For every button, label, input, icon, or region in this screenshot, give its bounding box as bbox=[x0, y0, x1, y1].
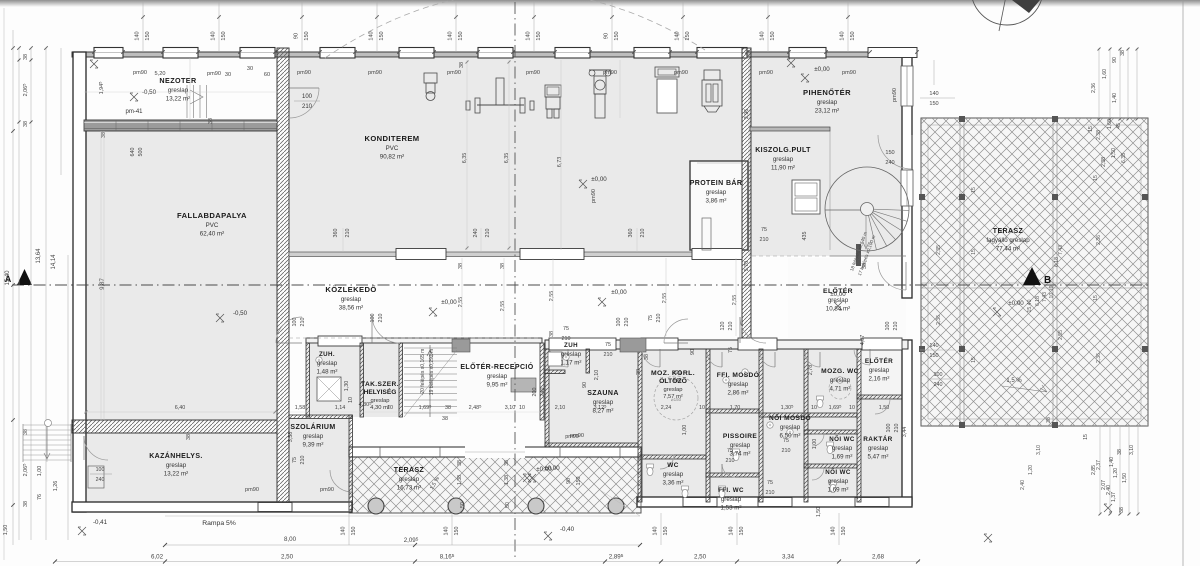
svg-text:140: 140 bbox=[760, 31, 766, 40]
svg-text:NŐI WC: NŐI WC bbox=[825, 469, 851, 476]
svg-text:greslap: greslap bbox=[399, 476, 420, 483]
svg-text:B: B bbox=[1044, 275, 1051, 286]
svg-text:38: 38 bbox=[636, 369, 642, 375]
svg-text:38: 38 bbox=[459, 62, 465, 68]
svg-text:140: 140 bbox=[929, 343, 938, 349]
svg-text:1,50: 1,50 bbox=[879, 405, 890, 411]
svg-text:2,78: 2,78 bbox=[808, 365, 814, 376]
svg-text:30: 30 bbox=[225, 72, 231, 78]
svg-text:2,24: 2,24 bbox=[661, 405, 672, 411]
svg-text:pm90: pm90 bbox=[565, 434, 579, 440]
svg-text:greslap: greslap bbox=[663, 387, 682, 393]
svg-text:7,57 m²: 7,57 m² bbox=[663, 394, 683, 400]
svg-text:140: 140 bbox=[840, 31, 846, 40]
svg-text:pm90: pm90 bbox=[245, 487, 259, 493]
svg-text:pm90: pm90 bbox=[207, 71, 221, 77]
svg-text:1,20: 1,20 bbox=[1028, 465, 1034, 475]
svg-text:greslap: greslap bbox=[828, 297, 849, 304]
svg-text:150: 150 bbox=[351, 527, 357, 536]
svg-text:2,16 m²: 2,16 m² bbox=[869, 376, 890, 383]
svg-text:13,22 m²: 13,22 m² bbox=[164, 471, 188, 478]
svg-text:Rampa 5%: Rampa 5% bbox=[202, 520, 236, 527]
svg-text:1,53 m²: 1,53 m² bbox=[721, 505, 742, 512]
svg-text:pm90: pm90 bbox=[842, 70, 856, 76]
svg-text:100: 100 bbox=[673, 370, 682, 376]
svg-text:100: 100 bbox=[302, 94, 313, 100]
svg-text:greslap: greslap bbox=[828, 478, 849, 485]
svg-text:HELYISÉG: HELYISÉG bbox=[364, 387, 397, 396]
svg-text:2,38: 2,38 bbox=[1096, 130, 1102, 140]
svg-text:45: 45 bbox=[1116, 123, 1122, 129]
svg-text:-0,41: -0,41 bbox=[93, 519, 108, 526]
svg-text:90,82 m²: 90,82 m² bbox=[380, 154, 404, 161]
svg-text:75: 75 bbox=[761, 227, 767, 233]
svg-text:WC: WC bbox=[667, 462, 678, 469]
svg-text:150: 150 bbox=[663, 527, 669, 536]
svg-text:1,50: 1,50 bbox=[3, 525, 9, 536]
svg-text:±0,00: ±0,00 bbox=[1008, 300, 1024, 307]
svg-text:ELŐTÉR: ELŐTÉR bbox=[865, 356, 893, 365]
svg-text:90: 90 bbox=[294, 33, 300, 39]
svg-text:16,73 m²: 16,73 m² bbox=[397, 485, 421, 492]
svg-text:90: 90 bbox=[604, 33, 610, 39]
svg-text:150: 150 bbox=[929, 101, 938, 107]
svg-text:3,36 m²: 3,36 m² bbox=[663, 480, 684, 487]
svg-text:38: 38 bbox=[457, 460, 463, 466]
svg-text:greslap: greslap bbox=[832, 445, 853, 452]
svg-text:3,10: 3,10 bbox=[505, 405, 516, 411]
svg-text:greslap: greslap bbox=[317, 360, 338, 367]
svg-text:8,00: 8,00 bbox=[284, 536, 297, 543]
svg-text:pm90: pm90 bbox=[526, 70, 540, 76]
svg-text:140: 140 bbox=[831, 527, 837, 536]
svg-text:fagyálló greslap: fagyálló greslap bbox=[986, 237, 1030, 244]
svg-text:greslap: greslap bbox=[780, 424, 801, 431]
svg-text:1,60: 1,60 bbox=[1102, 69, 1108, 79]
svg-text:150: 150 bbox=[685, 31, 691, 40]
svg-text:150: 150 bbox=[454, 527, 460, 536]
svg-text:3,96: 3,96 bbox=[744, 109, 750, 120]
svg-text:NEZOTER: NEZOTER bbox=[159, 76, 197, 85]
svg-text:6,18: 6,18 bbox=[1054, 257, 1060, 267]
svg-text:2,55: 2,55 bbox=[549, 291, 555, 302]
svg-text:15: 15 bbox=[1083, 434, 1089, 440]
svg-text:38: 38 bbox=[23, 501, 29, 507]
svg-text:150: 150 bbox=[145, 31, 151, 40]
svg-text:1,70: 1,70 bbox=[730, 405, 741, 411]
svg-text:38: 38 bbox=[23, 121, 29, 127]
svg-text:10,19: 10,19 bbox=[1049, 285, 1055, 298]
svg-text:38: 38 bbox=[504, 460, 510, 466]
svg-text:210: 210 bbox=[728, 322, 734, 331]
svg-text:greslap: greslap bbox=[168, 87, 189, 94]
svg-text:pm90: pm90 bbox=[591, 189, 597, 203]
svg-text:640: 640 bbox=[130, 148, 136, 157]
svg-text:150: 150 bbox=[841, 527, 847, 536]
svg-text:9,95 m²: 9,95 m² bbox=[487, 382, 508, 389]
svg-text:62,40 m²: 62,40 m² bbox=[200, 231, 224, 238]
svg-text:140: 140 bbox=[448, 31, 454, 40]
svg-text:1,38: 1,38 bbox=[457, 475, 463, 485]
svg-text:140: 140 bbox=[929, 91, 938, 97]
svg-text:38: 38 bbox=[862, 263, 868, 269]
svg-text:5,70: 5,70 bbox=[744, 261, 750, 272]
svg-text:140: 140 bbox=[444, 527, 450, 536]
svg-text:75: 75 bbox=[648, 315, 654, 321]
svg-text:150: 150 bbox=[850, 31, 856, 40]
svg-text:100: 100 bbox=[292, 318, 298, 327]
svg-text:3,10: 3,10 bbox=[1036, 445, 1042, 455]
svg-text:-0,50: -0,50 bbox=[233, 310, 248, 317]
svg-text:15: 15 bbox=[1088, 126, 1094, 132]
svg-text:1,50: 1,50 bbox=[1111, 148, 1117, 158]
svg-text:3,44: 3,44 bbox=[902, 427, 908, 438]
svg-text:2,35: 2,35 bbox=[936, 245, 942, 255]
svg-text:10,84 m²: 10,84 m² bbox=[826, 306, 850, 313]
svg-text:6,73: 6,73 bbox=[557, 157, 563, 168]
svg-text:210: 210 bbox=[562, 336, 571, 342]
svg-text:greslap: greslap bbox=[487, 373, 508, 380]
svg-text:75: 75 bbox=[605, 342, 611, 348]
svg-text:38: 38 bbox=[208, 118, 214, 124]
svg-text:pm90: pm90 bbox=[368, 70, 382, 76]
svg-text:RAKTÁR: RAKTÁR bbox=[863, 434, 892, 443]
svg-text:pm90: pm90 bbox=[759, 70, 773, 76]
svg-text:150: 150 bbox=[536, 31, 542, 40]
svg-text:23,12 m²: 23,12 m² bbox=[815, 108, 839, 115]
svg-text:4,37: 4,37 bbox=[860, 335, 866, 346]
svg-text:2,68: 2,68 bbox=[872, 554, 885, 561]
svg-text:7,43: 7,43 bbox=[1058, 245, 1064, 255]
svg-text:SZAUNA: SZAUNA bbox=[587, 390, 619, 397]
svg-text:greslap: greslap bbox=[817, 99, 838, 106]
svg-text:1,00: 1,00 bbox=[682, 425, 688, 436]
svg-text:pm90: pm90 bbox=[447, 70, 461, 76]
svg-text:PVC: PVC bbox=[386, 145, 399, 152]
svg-text:±0,00: ±0,00 bbox=[830, 291, 846, 298]
svg-text:1,50: 1,50 bbox=[816, 507, 822, 517]
svg-text:2,55: 2,55 bbox=[500, 301, 506, 312]
svg-text:200: 200 bbox=[532, 388, 538, 397]
svg-text:FALLABDAPALYA: FALLABDAPALYA bbox=[177, 211, 247, 220]
svg-text:2,50: 2,50 bbox=[281, 554, 294, 561]
svg-text:±0,00: ±0,00 bbox=[591, 176, 607, 183]
svg-text:1,5 %: 1,5 % bbox=[1006, 378, 1022, 384]
svg-text:100: 100 bbox=[370, 314, 376, 323]
svg-text:pm-41: pm-41 bbox=[125, 109, 143, 115]
svg-text:15,40: 15,40 bbox=[5, 270, 11, 286]
svg-text:NŐI MOSDÓ: NŐI MOSDÓ bbox=[769, 413, 811, 422]
svg-text:140: 140 bbox=[135, 31, 141, 40]
svg-text:360: 360 bbox=[628, 229, 634, 238]
svg-text:30: 30 bbox=[247, 66, 253, 72]
svg-text:210: 210 bbox=[300, 318, 306, 327]
svg-text:KISZOLG.PULT: KISZOLG.PULT bbox=[755, 147, 811, 154]
svg-text:38: 38 bbox=[442, 416, 448, 422]
svg-text:MOZG. WC: MOZG. WC bbox=[821, 368, 859, 375]
svg-text:TERASZ: TERASZ bbox=[993, 228, 1024, 235]
svg-text:210: 210 bbox=[782, 448, 791, 454]
svg-text:1,69 m²: 1,69 m² bbox=[832, 454, 853, 461]
svg-text:210: 210 bbox=[656, 314, 662, 323]
svg-text:ZUH: ZUH bbox=[564, 342, 578, 349]
svg-text:210: 210 bbox=[726, 458, 735, 464]
svg-text:1,48 m²: 1,48 m² bbox=[317, 369, 338, 376]
svg-text:240: 240 bbox=[540, 388, 546, 397]
svg-text:140: 140 bbox=[211, 31, 217, 40]
svg-text:10: 10 bbox=[387, 405, 393, 411]
svg-text:100: 100 bbox=[886, 424, 892, 433]
svg-text:KONDITEREM: KONDITEREM bbox=[364, 134, 419, 143]
svg-text:3,86 m²: 3,86 m² bbox=[706, 198, 727, 205]
svg-text:TAK.SZER.: TAK.SZER. bbox=[361, 381, 399, 388]
svg-text:150: 150 bbox=[576, 477, 582, 486]
svg-text:-20 felépés x0,165 m: -20 felépés x0,165 m bbox=[420, 349, 426, 396]
svg-text:435: 435 bbox=[802, 232, 808, 241]
svg-text:greslap: greslap bbox=[830, 377, 851, 384]
svg-text:150: 150 bbox=[614, 31, 620, 40]
svg-text:3,58: 3,58 bbox=[288, 432, 294, 443]
svg-text:2,38: 2,38 bbox=[1101, 157, 1107, 167]
svg-text:14,14: 14,14 bbox=[51, 254, 57, 270]
svg-text:2,55: 2,55 bbox=[458, 297, 464, 308]
svg-text:210: 210 bbox=[760, 237, 769, 243]
svg-text:15: 15 bbox=[971, 357, 977, 363]
svg-text:90: 90 bbox=[566, 478, 572, 484]
svg-text:6,40: 6,40 bbox=[175, 405, 186, 411]
svg-text:50: 50 bbox=[460, 502, 466, 508]
svg-text:greslap: greslap bbox=[728, 381, 749, 388]
svg-text:±0,00: ±0,00 bbox=[441, 299, 457, 306]
svg-text:greslap: greslap bbox=[721, 496, 742, 503]
svg-text:1,14: 1,14 bbox=[335, 405, 346, 411]
svg-text:2,36: 2,36 bbox=[936, 315, 942, 325]
svg-text:6,02: 6,02 bbox=[151, 554, 164, 561]
svg-text:PISSOIRE: PISSOIRE bbox=[723, 433, 758, 440]
svg-text:greslap: greslap bbox=[166, 462, 187, 469]
svg-text:NŐI WC: NŐI WC bbox=[829, 436, 855, 443]
svg-text:240: 240 bbox=[673, 378, 682, 384]
svg-text:1,30: 1,30 bbox=[344, 381, 350, 392]
svg-text:11,90 m²: 11,90 m² bbox=[771, 165, 795, 172]
svg-text:±0,00: ±0,00 bbox=[611, 289, 627, 296]
svg-text:2,37: 2,37 bbox=[1096, 460, 1102, 470]
svg-text:50: 50 bbox=[505, 502, 511, 508]
svg-text:140: 140 bbox=[369, 31, 375, 40]
svg-text:2,36: 2,36 bbox=[1096, 235, 1102, 245]
svg-text:pm90: pm90 bbox=[297, 70, 311, 76]
svg-text:120: 120 bbox=[720, 322, 726, 331]
svg-text:15: 15 bbox=[971, 249, 977, 255]
svg-text:KAZÁNHELYS.: KAZÁNHELYS. bbox=[149, 451, 203, 460]
svg-text:360: 360 bbox=[333, 229, 339, 238]
svg-text:1,38: 1,38 bbox=[504, 475, 510, 485]
svg-text:240: 240 bbox=[934, 382, 943, 388]
svg-text:150: 150 bbox=[770, 31, 776, 40]
svg-text:75: 75 bbox=[563, 326, 569, 332]
svg-text:1,50: 1,50 bbox=[1122, 473, 1128, 483]
svg-text:pm90: pm90 bbox=[674, 70, 688, 76]
svg-text:210: 210 bbox=[640, 229, 646, 238]
svg-text:210: 210 bbox=[302, 104, 313, 110]
svg-text:210: 210 bbox=[624, 318, 630, 327]
svg-text:SZOLÁRIUM: SZOLÁRIUM bbox=[290, 422, 335, 431]
svg-text:FFI. MOSDÓ: FFI. MOSDÓ bbox=[717, 370, 759, 379]
svg-text:1,00: 1,00 bbox=[812, 439, 818, 450]
svg-text:100: 100 bbox=[934, 372, 943, 378]
svg-text:1,00: 1,00 bbox=[37, 466, 43, 477]
svg-text:10: 10 bbox=[519, 405, 525, 411]
svg-text:150: 150 bbox=[304, 31, 310, 40]
svg-text:240: 240 bbox=[885, 160, 894, 166]
svg-text:2,10: 2,10 bbox=[555, 405, 566, 411]
svg-text:100: 100 bbox=[96, 467, 105, 473]
svg-text:77,44 m²: 77,44 m² bbox=[996, 246, 1020, 253]
svg-text:pm90: pm90 bbox=[320, 487, 334, 493]
svg-text:5,20: 5,20 bbox=[155, 71, 166, 77]
svg-text:140: 140 bbox=[526, 31, 532, 40]
svg-text:1,60: 1,60 bbox=[1107, 119, 1113, 129]
svg-text:PVC: PVC bbox=[206, 222, 219, 229]
svg-text:19 belépés x0,292 m: 19 belépés x0,292 m bbox=[429, 349, 435, 395]
svg-text:210: 210 bbox=[766, 490, 775, 496]
svg-text:210: 210 bbox=[485, 229, 491, 238]
svg-text:1,20: 1,20 bbox=[1113, 468, 1119, 478]
svg-text:240: 240 bbox=[473, 229, 479, 238]
svg-text:38: 38 bbox=[644, 354, 650, 360]
svg-text:1,40: 1,40 bbox=[1112, 93, 1118, 103]
svg-text:5,47 m²: 5,47 m² bbox=[868, 454, 889, 461]
svg-text:15: 15 bbox=[971, 187, 977, 193]
svg-text:PIHENŐTÉR: PIHENŐTÉR bbox=[803, 88, 851, 97]
svg-text:150: 150 bbox=[885, 150, 894, 156]
svg-text:240: 240 bbox=[96, 477, 105, 483]
svg-text:38: 38 bbox=[186, 434, 192, 440]
svg-text:4,71 m²: 4,71 m² bbox=[830, 386, 851, 393]
svg-text:7,43: 7,43 bbox=[1042, 292, 1048, 302]
svg-text:2,50: 2,50 bbox=[694, 554, 707, 561]
svg-text:90: 90 bbox=[690, 349, 696, 355]
svg-text:13,64: 13,64 bbox=[36, 248, 42, 264]
svg-text:15: 15 bbox=[1093, 175, 1099, 181]
svg-text:38: 38 bbox=[458, 263, 464, 269]
svg-text:150: 150 bbox=[929, 353, 938, 359]
svg-text:38: 38 bbox=[23, 54, 29, 60]
svg-text:KÖZLEKEDŐ: KÖZLEKEDŐ bbox=[325, 285, 376, 294]
svg-text:1,17 m²: 1,17 m² bbox=[561, 360, 582, 367]
svg-text:90: 90 bbox=[582, 382, 588, 388]
svg-text:ZUH.: ZUH. bbox=[319, 351, 335, 358]
svg-text:210: 210 bbox=[604, 352, 613, 358]
svg-text:±0,00: ±0,00 bbox=[814, 66, 830, 73]
svg-text:140: 140 bbox=[729, 527, 735, 536]
svg-text:TERASZ: TERASZ bbox=[394, 467, 425, 474]
svg-text:1,26: 1,26 bbox=[53, 481, 59, 492]
svg-text:75: 75 bbox=[292, 457, 298, 463]
svg-text:pm90: pm90 bbox=[892, 88, 898, 102]
svg-text:38: 38 bbox=[1046, 417, 1052, 423]
svg-text:2,55: 2,55 bbox=[732, 295, 738, 306]
svg-text:1,58: 1,58 bbox=[295, 405, 306, 411]
svg-text:6,18: 6,18 bbox=[1035, 296, 1041, 306]
svg-text:150: 150 bbox=[739, 527, 745, 536]
svg-text:60: 60 bbox=[264, 72, 270, 78]
svg-text:greslap: greslap bbox=[773, 156, 794, 163]
svg-text:210: 210 bbox=[893, 322, 899, 331]
svg-text:1,40: 1,40 bbox=[1109, 457, 1115, 467]
svg-text:75: 75 bbox=[783, 438, 789, 444]
svg-text:210: 210 bbox=[300, 456, 306, 465]
svg-text:2,40: 2,40 bbox=[1020, 480, 1026, 490]
svg-text:10: 10 bbox=[849, 405, 855, 411]
svg-text:pm90: pm90 bbox=[603, 70, 617, 76]
svg-text:greslap: greslap bbox=[706, 189, 727, 196]
svg-text:500: 500 bbox=[138, 148, 144, 157]
svg-text:1,69 m²: 1,69 m² bbox=[828, 487, 849, 494]
svg-text:9,39 m²: 9,39 m² bbox=[303, 442, 324, 449]
svg-text:2,36: 2,36 bbox=[1091, 83, 1097, 93]
svg-text:210: 210 bbox=[378, 314, 384, 323]
svg-text:210: 210 bbox=[894, 424, 900, 433]
svg-text:140: 140 bbox=[341, 527, 347, 536]
svg-text:pm90: pm90 bbox=[133, 70, 147, 76]
svg-text:76: 76 bbox=[37, 494, 43, 500]
svg-text:2,55: 2,55 bbox=[662, 293, 668, 304]
svg-text:-0,40: -0,40 bbox=[560, 526, 575, 533]
svg-text:38: 38 bbox=[1120, 50, 1126, 56]
svg-text:150: 150 bbox=[221, 31, 227, 40]
svg-text:FFI. WC: FFI. WC bbox=[718, 487, 744, 494]
svg-text:2,36: 2,36 bbox=[1096, 353, 1102, 363]
svg-text:38: 38 bbox=[549, 331, 555, 337]
svg-text:38: 38 bbox=[1119, 507, 1125, 513]
svg-text:100: 100 bbox=[616, 318, 622, 327]
svg-text:13,22 m²: 13,22 m² bbox=[166, 96, 190, 103]
svg-text:150: 150 bbox=[379, 31, 385, 40]
svg-text:greslap: greslap bbox=[370, 398, 389, 404]
svg-text:greslap: greslap bbox=[341, 296, 362, 303]
svg-text:2,86 m²: 2,86 m² bbox=[728, 390, 749, 397]
svg-text:-0,50: -0,50 bbox=[142, 89, 157, 96]
svg-text:3,10: 3,10 bbox=[1129, 445, 1135, 455]
svg-text:greslap: greslap bbox=[869, 367, 890, 374]
svg-text:ELŐTÉR-RECEPCIÓ: ELŐTÉR-RECEPCIÓ bbox=[460, 362, 533, 371]
svg-text:15: 15 bbox=[1093, 295, 1099, 301]
svg-text:6,35: 6,35 bbox=[1121, 153, 1127, 163]
svg-text:greslap: greslap bbox=[561, 351, 582, 358]
svg-text:38: 38 bbox=[500, 263, 506, 269]
svg-text:10: 10 bbox=[699, 405, 705, 411]
svg-text:10: 10 bbox=[811, 405, 817, 411]
svg-text:140: 140 bbox=[653, 527, 659, 536]
svg-text:2,10: 2,10 bbox=[594, 370, 600, 381]
svg-text:75: 75 bbox=[728, 347, 734, 353]
svg-text:90: 90 bbox=[1112, 57, 1118, 63]
svg-text:greslap: greslap bbox=[663, 471, 684, 478]
svg-text:2,40: 2,40 bbox=[1106, 485, 1112, 495]
svg-text:100: 100 bbox=[885, 322, 891, 331]
svg-text:75: 75 bbox=[767, 480, 773, 486]
svg-text:140: 140 bbox=[675, 31, 681, 40]
svg-text:PROTEIN BÁR: PROTEIN BÁR bbox=[690, 178, 743, 187]
svg-text:150: 150 bbox=[458, 31, 464, 40]
svg-text:2,55: 2,55 bbox=[1058, 330, 1064, 340]
svg-text:38: 38 bbox=[445, 405, 451, 411]
svg-text:38,56 m²: 38,56 m² bbox=[339, 305, 363, 312]
svg-text:10: 10 bbox=[348, 397, 354, 403]
svg-text:15,40: 15,40 bbox=[1027, 299, 1033, 312]
svg-text:38: 38 bbox=[1117, 449, 1123, 455]
